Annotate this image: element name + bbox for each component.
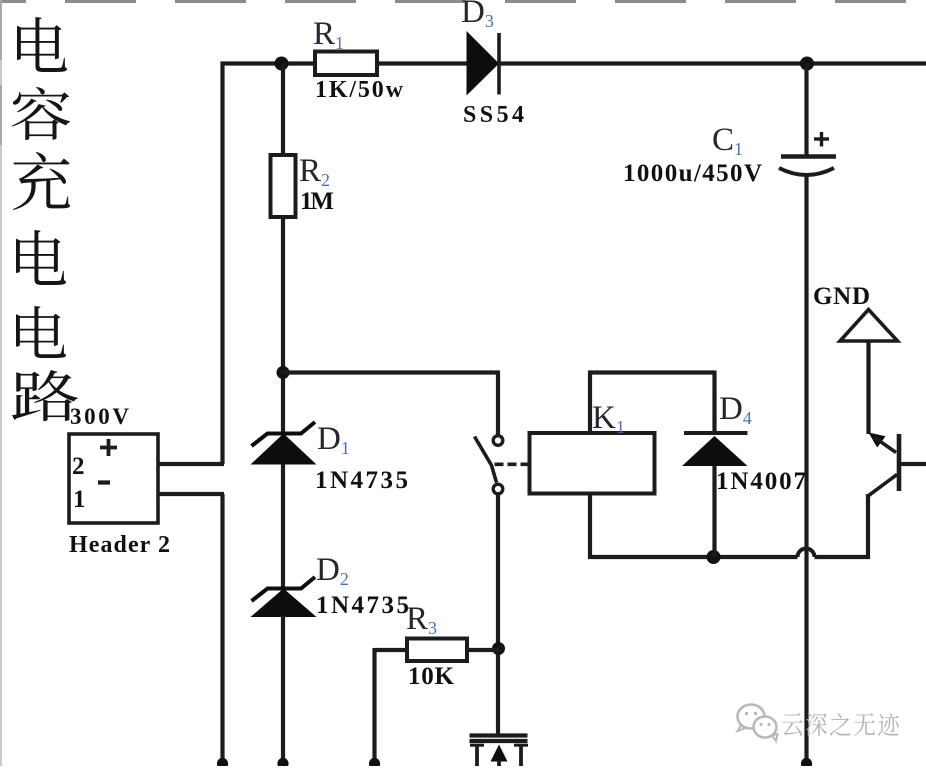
svg-text:1K/50w: 1K/50w (315, 77, 404, 103)
relay K1 coil box (530, 433, 655, 494)
wire D4 to bottom rail (712, 466, 716, 557)
capacitor C1 (781, 154, 836, 159)
ground symbol (840, 310, 898, 342)
wire header pin 2 (158, 462, 224, 466)
resistor R1 (315, 52, 377, 76)
watermark wechat logo (738, 705, 778, 742)
switch S1 blade (475, 437, 497, 483)
pin label + (100, 446, 117, 450)
switch linkage dashed (495, 462, 530, 466)
wire bottom rail to transistor collector (815, 555, 871, 559)
title char 充 (13, 152, 70, 210)
node bottom bus dots (217, 758, 228, 769)
transistor Q1 base bar (897, 434, 902, 491)
pin label - (98, 480, 110, 484)
wire switch to R3 junction and mosfet (496, 494, 500, 735)
svg-text:1: 1 (73, 486, 86, 513)
wire relay bottom rail (588, 555, 798, 559)
transistor Q1 emitter arrow (869, 433, 886, 448)
title char 路 (12, 370, 78, 421)
wire relay top rail to D4 (588, 370, 715, 374)
transistor Q1 collector (868, 475, 897, 497)
switch S1 bottom contact (493, 484, 503, 494)
svg-text:300V: 300V (70, 404, 129, 429)
zener diode D2 (251, 589, 317, 618)
resistor R2 (271, 155, 296, 217)
title char 电 (3) (16, 306, 66, 358)
wire left vertical lower (header pin 1 to bottom) (220, 494, 224, 766)
wire top rail right segment (D3 to right edge) (499, 61, 926, 65)
node junction D4 / bottom rail (707, 550, 721, 564)
mosfet Q2 left stub (470, 744, 484, 747)
wire collector down (866, 494, 870, 559)
wire relay top lead (588, 373, 592, 434)
C1 polarity + (814, 137, 829, 140)
wire R3 left vertical (372, 648, 376, 766)
resistor R3 (407, 639, 467, 662)
wire R3 right lead (467, 648, 500, 652)
mosfet Q2 channel bar (470, 739, 528, 743)
svg-text:GND: GND (813, 283, 870, 310)
wire C1 top (804, 64, 808, 157)
wire R2 top (281, 64, 285, 158)
diode D3 (467, 31, 500, 96)
svg-text:10K: 10K (408, 663, 455, 690)
diode D4 (684, 431, 748, 435)
zener diode D1 (251, 434, 317, 465)
wire top rail left segment (221, 61, 318, 65)
wire left vertical upper (top rail to header pin 2) (220, 62, 224, 465)
title char 电 (1) (17, 17, 67, 72)
wire R3 left lead (375, 648, 410, 652)
svg-text:2: 2 (72, 453, 85, 480)
node junction R3 / gate (492, 642, 505, 655)
wire C1 bottom (804, 174, 808, 766)
mosfet Q2 body arrow (491, 745, 508, 762)
wire hop over C1 line (798, 549, 815, 558)
wire D2 to bottom (281, 617, 285, 766)
wire base lead (899, 462, 926, 466)
node junction R1/R2 (275, 57, 289, 71)
svg-text:1M: 1M (300, 188, 334, 215)
wire R2 bottom to D1 (281, 217, 285, 435)
connector J1 Header 2 (69, 434, 158, 523)
wire relay bottom lead (588, 494, 592, 560)
mosfet Q2 right stub (514, 744, 528, 747)
left dashed border (0, 0, 2, 766)
title char 电 (2) (16, 230, 66, 285)
wire branch to switch (281, 370, 499, 374)
wire top rail mid segment (R1 to D3) (375, 61, 468, 65)
svg-text:Header 2: Header 2 (69, 532, 170, 558)
title char 容 (12, 87, 70, 140)
mosfet Q2 gate bar (470, 733, 528, 737)
switch S1 top contact (493, 436, 503, 446)
wire D1 to D2 (281, 465, 285, 591)
top dashed border (0, 0, 926, 3)
wire gnd to transistor emitter (866, 341, 870, 434)
watermark text 云深之无迹 (782, 713, 803, 736)
node junction top rail / C1 (800, 57, 814, 71)
node junction R2 / switch branch (277, 366, 290, 379)
wire header pin 1 (158, 492, 224, 496)
